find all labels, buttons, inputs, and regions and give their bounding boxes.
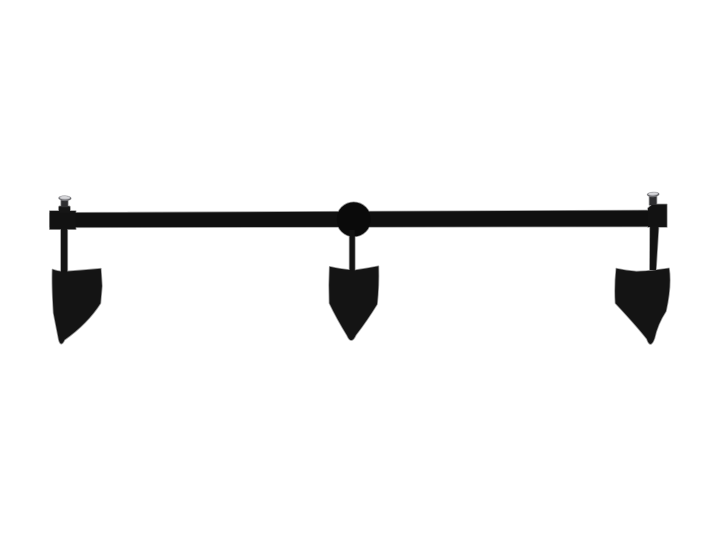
soft edge fringe pass <box>50 196 670 344</box>
left bolt cap <box>58 195 72 201</box>
right bolt cap <box>647 191 660 197</box>
main silhouette pass <box>50 196 670 344</box>
